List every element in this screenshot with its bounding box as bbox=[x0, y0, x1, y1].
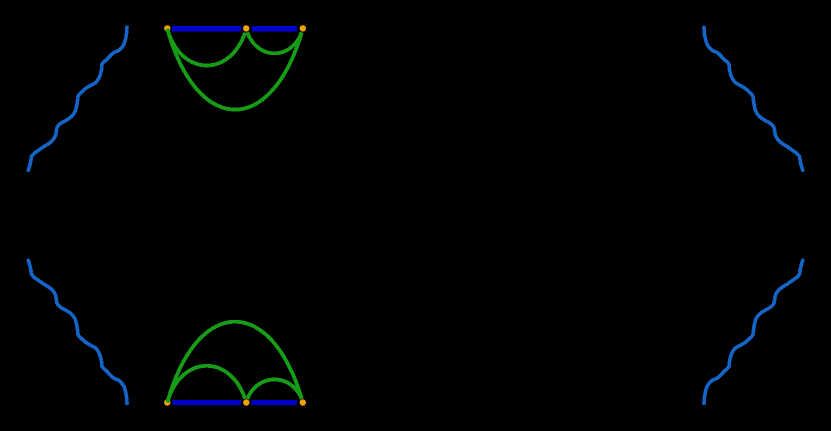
bottom bar 2 bbox=[251, 400, 297, 405]
top bar 1 bbox=[172, 26, 241, 31]
bottom bar 1 bbox=[172, 400, 241, 405]
bottom arc dot1-dot2 bbox=[167, 366, 245, 403]
bottom dot 1 bbox=[164, 399, 170, 405]
photon line top-right bbox=[704, 27, 803, 170]
photon line bottom-right bbox=[704, 260, 803, 403]
top dot 2 bbox=[243, 25, 249, 31]
bottom arc dot2-dot3 bbox=[247, 379, 301, 398]
top arc dot2-dot3 bbox=[247, 32, 301, 53]
bottom arc dot1-dot3 bbox=[167, 322, 301, 403]
photon line bottom-left bbox=[28, 260, 127, 403]
bottom dot 3 bbox=[300, 399, 306, 405]
top arc dot1-dot3 bbox=[167, 29, 301, 110]
photon line top-left bbox=[28, 27, 127, 170]
top bar 2 bbox=[252, 26, 297, 31]
top dot 1 bbox=[164, 25, 170, 31]
top dot 3 bbox=[300, 25, 306, 31]
top arc dot1-dot2 bbox=[167, 29, 245, 66]
bottom dot 2 bbox=[243, 399, 249, 405]
